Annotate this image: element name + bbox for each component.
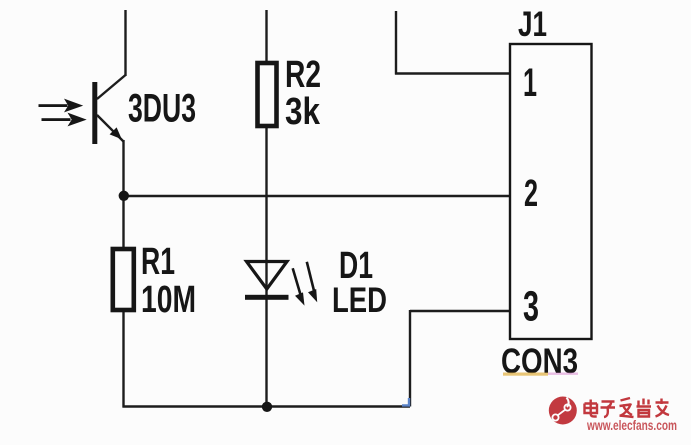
wire LED bottom vertical — [265, 297, 267, 407]
watermark logo circle — [549, 397, 577, 425]
wire LED inner vertical — [265, 262, 267, 297]
svg-text:www.elecfans.com: www.elecfans.com — [586, 418, 677, 433]
transistor emitter diagonal — [97, 115, 124, 142]
light arrow 2 — [42, 113, 87, 127]
wire bottom horizontal — [123, 405, 411, 407]
LED light arrow 2 — [307, 262, 317, 302]
node B junction dot bottom — [262, 402, 272, 412]
connector J1 box — [510, 44, 592, 339]
wire node-to-R1 vertical — [122, 196, 124, 249]
wire pin3 vertical — [409, 310, 411, 407]
transistor emitter arrowhead — [110, 127, 122, 139]
wire R2 top vertical — [265, 10, 267, 63]
wire pin3 horizontal — [410, 310, 510, 312]
svg-text:R1: R1 — [141, 241, 175, 283]
svg-text:3DU3: 3DU3 — [128, 87, 196, 131]
resistor R1 — [113, 249, 134, 310]
svg-text:R2: R2 — [285, 54, 321, 96]
wire collector top vertical — [124, 10, 126, 76]
wire pin2 horizontal — [124, 195, 511, 197]
svg-text:10M: 10M — [141, 279, 196, 321]
wire R2-to-LED vertical — [265, 126, 267, 262]
wire pin1 vertical — [395, 11, 397, 75]
node A junction dot left — [119, 191, 129, 201]
svg-text:2: 2 — [524, 173, 538, 215]
LED triangle — [247, 262, 288, 290]
wire R1 bottom vertical — [122, 310, 124, 408]
blue scan artifact corner — [402, 398, 409, 405]
light arrow 1 — [39, 99, 84, 113]
wire emitter vertical — [122, 140, 124, 196]
diode D1 LED — [245, 262, 317, 306]
resistor R2 — [258, 63, 277, 126]
LED light arrow 1 — [293, 268, 305, 305]
wire pin1 horizontal — [395, 72, 510, 74]
svg-text:3: 3 — [523, 283, 539, 331]
wire collector diagonal — [97, 75, 126, 99]
transistor base bar — [92, 82, 97, 144]
svg-text:1: 1 — [523, 61, 537, 105]
LED cathode bar — [245, 295, 289, 300]
transistor Q1 3DU3 phototransistor — [39, 82, 124, 144]
svg-text:3k: 3k — [285, 91, 321, 133]
svg-text:J1: J1 — [518, 5, 547, 44]
watermark chinese text 电子发烧友 — [585, 398, 670, 417]
svg-text:LED: LED — [332, 281, 387, 320]
yellow scan artifact under CON3 — [503, 373, 548, 376]
magenta scan artifact under CON3 — [548, 373, 578, 375]
